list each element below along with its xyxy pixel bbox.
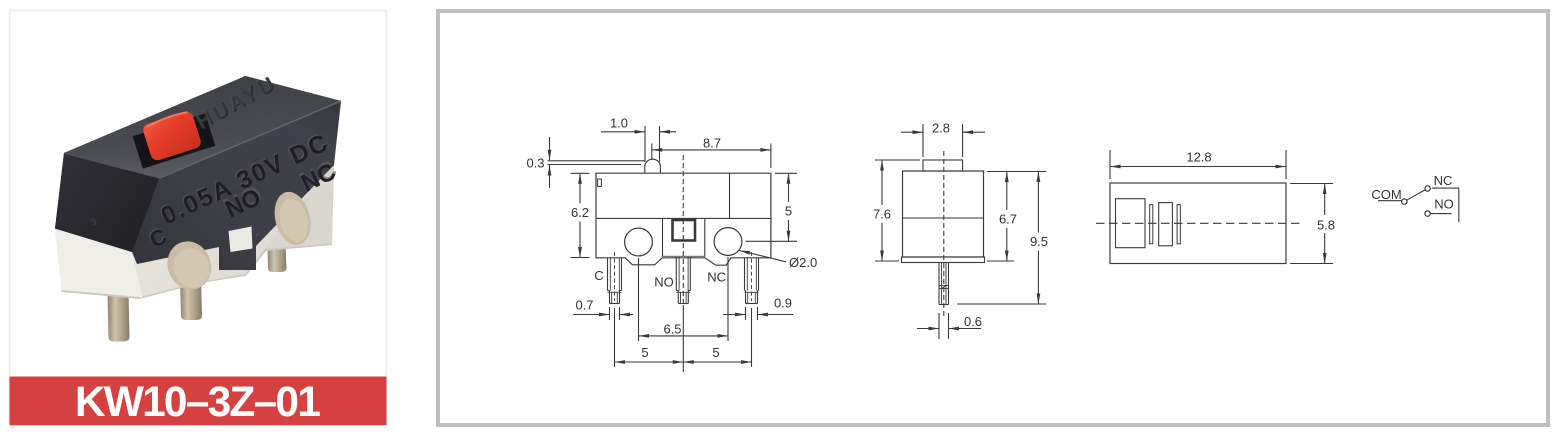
side view: body mid line	[903, 217, 984, 219]
3 mold mark (photo)	[89, 216, 98, 228]
dimension 12.8 (body length)	[1110, 150, 1286, 180]
front view: plunger button dome	[645, 159, 661, 173]
svg-text:5: 5	[641, 345, 648, 360]
svg-text:0.6: 0.6	[964, 314, 982, 329]
dimension 1.0 (button width)	[601, 116, 676, 163]
front view: terminal pin NO	[676, 155, 690, 305]
top view: center dashed line	[1096, 222, 1302, 224]
switch pin middle (photo)	[180, 280, 202, 321]
svg-text:6.7: 6.7	[999, 212, 1017, 227]
front view: body outline	[596, 173, 771, 265]
circuit: switch blade	[1407, 190, 1426, 200]
NO marking (photo)	[219, 179, 268, 224]
svg-text:Ø2.0: Ø2.0	[789, 255, 817, 270]
front view: notch side walls	[663, 218, 705, 256]
front view: notch floor thick line	[663, 256, 705, 258]
dimension 8.7 (button center to body edge)	[652, 136, 771, 169]
NC marking (photo)	[295, 153, 343, 197]
svg-text:8.7: 8.7	[703, 136, 721, 151]
svg-text:NO: NO	[1434, 197, 1454, 212]
svg-text:6.5: 6.5	[663, 321, 681, 336]
svg-text:7.6: 7.6	[873, 207, 891, 222]
svg-text:5: 5	[785, 203, 792, 218]
circuit: NC label	[1434, 173, 1453, 188]
red button (photo)	[141, 110, 202, 162]
circuit: NO wire	[1430, 213, 1451, 215]
base bottom shadow (photo)	[62, 243, 332, 297]
circuit: NC terminal	[1425, 186, 1430, 191]
terminal window white square (photo)	[229, 227, 253, 253]
dimension 0.9 (pin NC tip width)	[723, 296, 793, 321]
red button recess (photo)	[133, 113, 216, 168]
circuit: COM lead wire	[1378, 200, 1402, 202]
dimension 5.8 (body width)	[1290, 184, 1335, 264]
circuit: COM label	[1371, 187, 1401, 202]
circuit: output wire	[1458, 188, 1460, 222]
dimension 6.7 (body height)	[987, 172, 1017, 262]
front view: label NC	[707, 269, 726, 284]
top view: body outline	[1110, 183, 1286, 264]
svg-text:5: 5	[712, 345, 719, 360]
switch white base (photo)	[55, 165, 334, 300]
switch pin left (photo)	[108, 292, 130, 342]
dimension 0.6 (pin thickness)	[917, 313, 982, 339]
svg-text:2.8: 2.8	[932, 121, 950, 136]
svg-text:COM: COM	[1371, 187, 1401, 202]
front view: label C	[594, 268, 603, 283]
svg-text:0.7: 0.7	[575, 297, 593, 312]
svg-text:0.9: 0.9	[774, 296, 792, 311]
circuit: NC wire	[1432, 187, 1459, 189]
front view: right contact circle	[714, 228, 742, 256]
switch pin right (photo)	[268, 245, 287, 273]
front view: small rectangle mark	[598, 179, 602, 186]
svg-text:NC: NC	[707, 269, 726, 284]
circuit: COM terminal	[1402, 199, 1407, 204]
model label banner KW10-3Z-01	[10, 377, 387, 427]
circuit: NO label	[1434, 197, 1454, 212]
front view: terminal pin NC	[745, 252, 759, 304]
dimension 2.8 (button width side)	[901, 121, 985, 157]
svg-text:C: C	[594, 268, 603, 283]
front view: terminal pin C	[608, 252, 622, 304]
circuit: NO terminal	[1425, 211, 1430, 216]
front view: internal vertical line	[729, 173, 731, 218]
svg-text:NO: NO	[654, 275, 674, 290]
side view: body outline	[903, 171, 984, 257]
side view: base strip	[902, 257, 985, 263]
dimension 0.3 (lever thickness)	[526, 137, 551, 188]
dimension 6.5 (contact circles spacing)	[639, 257, 729, 341]
dimension 5-5 (pin spacing)	[615, 305, 752, 372]
top view: plunger rectangle	[1159, 203, 1173, 246]
svg-text:1.0: 1.0	[610, 116, 628, 131]
top view: rib bar 1	[1150, 205, 1153, 244]
leader Ø2.0 (contact circle diameter)	[740, 251, 818, 271]
front view: left contact circle	[625, 228, 653, 256]
dimension 0.7 (pin C tip width)	[573, 297, 633, 320]
photo card frame	[10, 11, 387, 425]
base hole left (photo)	[160, 235, 218, 296]
dimension 7.6 (height incl button)	[873, 160, 920, 261]
front view: lever arm	[548, 161, 645, 165]
dimension 5 (body height right)	[746, 173, 798, 241]
svg-text:6.2: 6.2	[571, 205, 589, 220]
top view: lever slot rectangle	[1116, 199, 1146, 248]
side view: center dashed line	[943, 151, 945, 318]
svg-text:12.8: 12.8	[1186, 150, 1211, 165]
HUAYU marking (photo)	[192, 71, 281, 135]
front view: body mid line	[596, 217, 771, 219]
front view: plunger square	[673, 220, 696, 241]
svg-text:5.8: 5.8	[1317, 218, 1335, 233]
svg-text:KW10–3Z–01: KW10–3Z–01	[75, 379, 320, 426]
C marking (photo)	[144, 222, 170, 253]
switch dark body (photo)	[55, 76, 341, 270]
front view: label NO	[654, 275, 674, 290]
svg-text:0.3: 0.3	[526, 156, 544, 171]
top view: rib bar 2	[1177, 205, 1180, 244]
side view: terminal pin	[939, 263, 949, 305]
base hole right (photo)	[269, 188, 316, 249]
dimension 9.5 (total height)	[957, 172, 1048, 305]
side view: plunger button	[923, 160, 963, 171]
svg-text:9.5: 9.5	[1030, 234, 1048, 249]
dimension 6.2 (body height left)	[571, 173, 590, 257]
drawing box border	[438, 11, 1548, 425]
svg-text:NC: NC	[1434, 173, 1453, 188]
0.05A 30V DC marking (photo)	[155, 127, 333, 231]
